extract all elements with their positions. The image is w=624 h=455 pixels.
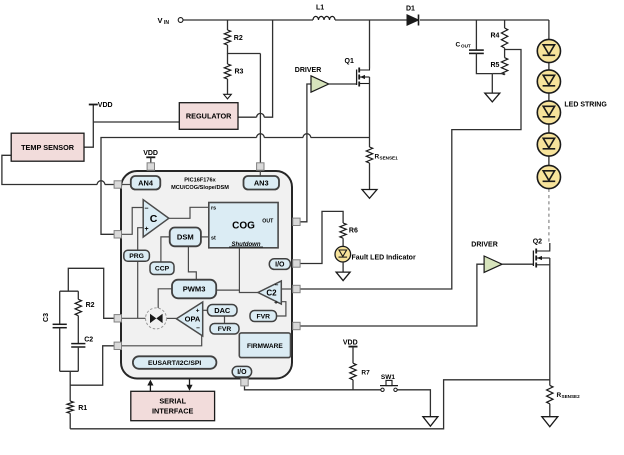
svg-text:SW1: SW1: [381, 374, 395, 381]
svg-text:C2: C2: [84, 337, 93, 344]
svg-text:OPA: OPA: [185, 315, 201, 324]
svg-text:VDD: VDD: [143, 150, 158, 157]
svg-text:+: +: [145, 226, 149, 233]
svg-text:MCU/COG/Slope/DSM: MCU/COG/Slope/DSM: [171, 185, 229, 191]
svg-text:−: −: [196, 325, 200, 332]
svg-text:FIRMWARE: FIRMWARE: [247, 343, 283, 350]
svg-text:L1: L1: [316, 5, 324, 12]
svg-text:VDD: VDD: [98, 102, 113, 109]
svg-text:+: +: [196, 308, 200, 315]
svg-text:Q2: Q2: [533, 239, 542, 246]
svg-text:R5: R5: [491, 62, 500, 69]
svg-text:V: V: [158, 16, 163, 25]
svg-text:R3: R3: [235, 69, 244, 76]
svg-text:AN4: AN4: [138, 178, 154, 187]
svg-text:C2: C2: [266, 289, 277, 298]
svg-text:st: st: [211, 235, 216, 241]
svg-text:R7: R7: [361, 370, 370, 377]
svg-text:AN3: AN3: [254, 178, 269, 187]
svg-text:IN: IN: [164, 20, 169, 26]
svg-text:CCP: CCP: [155, 266, 170, 273]
svg-text:COG: COG: [232, 221, 255, 232]
svg-text:Fault LED Indicator: Fault LED Indicator: [352, 255, 416, 262]
svg-text:DAC: DAC: [214, 306, 231, 315]
svg-text:FVR: FVR: [256, 313, 270, 320]
svg-text:I/O: I/O: [237, 369, 247, 376]
svg-text:C: C: [456, 42, 461, 49]
svg-text:INTERFACE: INTERFACE: [152, 407, 193, 416]
svg-text:R6: R6: [349, 228, 358, 235]
svg-text:LED STRING: LED STRING: [564, 102, 607, 109]
svg-text:D1: D1: [406, 6, 415, 13]
svg-text:R1: R1: [78, 405, 87, 412]
svg-text:PIC16F176x: PIC16F176x: [184, 178, 216, 184]
svg-text:VDD: VDD: [343, 339, 358, 346]
svg-text:PWM3: PWM3: [183, 285, 206, 294]
svg-text:SERIAL: SERIAL: [159, 397, 186, 406]
svg-text:REGULATOR: REGULATOR: [186, 112, 232, 121]
svg-text:+: +: [274, 299, 278, 306]
svg-text:R2: R2: [234, 35, 243, 42]
svg-text:−: −: [144, 205, 148, 212]
svg-text:I/O: I/O: [275, 262, 285, 269]
svg-text:EUSART/I2C/SPI: EUSART/I2C/SPI: [148, 360, 201, 367]
svg-text:C3: C3: [43, 313, 50, 322]
svg-text:TEMP SENSOR: TEMP SENSOR: [21, 143, 75, 152]
svg-text:FVR: FVR: [218, 326, 232, 333]
svg-text:C: C: [150, 213, 158, 225]
svg-text:R2: R2: [86, 302, 95, 309]
svg-text:DSM: DSM: [177, 233, 194, 242]
svg-text:DRIVER: DRIVER: [295, 67, 321, 74]
svg-text:−: −: [275, 282, 279, 289]
svg-text:DRIVER: DRIVER: [471, 242, 497, 249]
svg-text:Q1: Q1: [345, 58, 354, 65]
svg-text:OUT: OUT: [461, 44, 471, 49]
svg-text:SENSE2: SENSE2: [562, 394, 581, 399]
svg-text:SENSE1: SENSE1: [380, 156, 399, 161]
svg-text:PRG: PRG: [129, 253, 144, 260]
svg-text:rs: rs: [211, 205, 216, 211]
svg-text:OUT: OUT: [262, 219, 274, 225]
svg-text:R4: R4: [491, 33, 500, 40]
